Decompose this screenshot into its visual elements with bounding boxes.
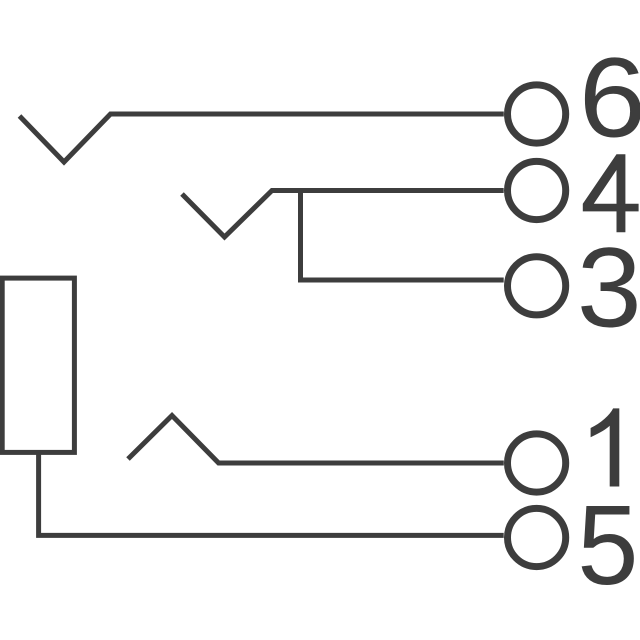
svg-text:3: 3 <box>577 225 640 351</box>
svg-text:6: 6 <box>579 34 640 160</box>
svg-text:5: 5 <box>577 482 638 609</box>
